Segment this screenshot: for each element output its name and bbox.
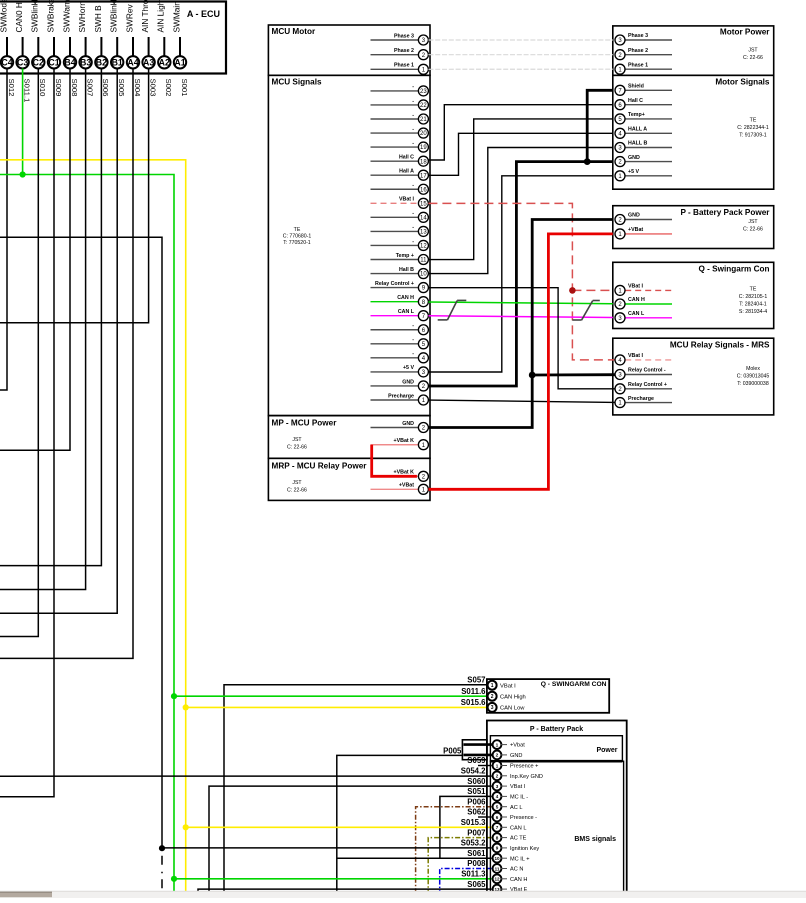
svg-text:18: 18 — [420, 159, 427, 165]
svg-text:CAN High: CAN High — [500, 694, 526, 700]
connector Motor Power box — [613, 26, 774, 75]
P Battery Pack Power pins — [625, 219, 672, 221]
Q Swingarm Con pins — [625, 289, 672, 291]
svg-text:Phase 3: Phase 3 — [628, 33, 648, 39]
svg-text:S011.1: S011.1 — [22, 79, 31, 103]
wire S007 from pin B3, exits left — [0, 69, 86, 590]
svg-text:CAN L: CAN L — [628, 311, 645, 317]
wire S063 ignition key trunk entering left — [0, 237, 162, 848]
svg-text:SWBlinkR: SWBlinkR — [109, 0, 119, 33]
svg-text:Q - SWINGARM CON: Q - SWINGARM CON — [541, 681, 607, 688]
svg-text:B4: B4 — [64, 57, 75, 67]
wire S011.1 CAN0-H green from pin C3 — [22, 69, 24, 175]
svg-text:-: - — [412, 84, 414, 90]
wire S061 : BMS pin 10 MC IL + — [337, 857, 492, 859]
svg-text:SWBrake: SWBrake — [45, 0, 55, 33]
svg-text:A1: A1 — [174, 57, 185, 67]
wire S008 from pin B4, exits left — [0, 69, 70, 451]
svg-text:-: - — [412, 140, 414, 146]
svg-text:S062: S062 — [467, 808, 486, 817]
svg-text:Motor Power: Motor Power — [720, 28, 770, 37]
svg-text:A2: A2 — [159, 57, 170, 67]
svg-text:MCU Relay Signals - MRS: MCU Relay Signals - MRS — [670, 341, 770, 350]
svg-text:AC TE: AC TE — [510, 836, 527, 842]
svg-text:AIN Light: AIN Light — [156, 0, 166, 33]
svg-text:+5 V: +5 V — [403, 365, 415, 371]
svg-text:GND: GND — [628, 213, 640, 219]
svg-text:B3: B3 — [80, 57, 91, 67]
cable bundle box P005 — [462, 740, 487, 760]
svg-text:Hall B: Hall B — [399, 267, 414, 273]
BMS signals sub-box — [490, 761, 623, 899]
wire S003 from pin A3, exits left — [0, 69, 149, 323]
svg-text:Phase 1: Phase 1 — [394, 63, 414, 69]
svg-text:3: 3 — [491, 705, 494, 711]
wire S063.2 : BMS pin 9 Ignition Key — [162, 847, 492, 849]
wire CAN H green : MCU 8 to Q 2 — [428, 302, 612, 304]
svg-text:SWHorn: SWHorn — [77, 1, 87, 33]
connector MCU Relay Signals - MRS box — [613, 338, 774, 415]
svg-text:S015.6: S015.6 — [461, 698, 486, 707]
svg-text:C4: C4 — [1, 57, 12, 67]
svg-text:Temp +: Temp + — [396, 253, 414, 259]
wire Hall A : MCU 17 to Motor Signals 4 — [428, 133, 612, 175]
svg-text:S054.2: S054.2 — [461, 767, 486, 776]
MP MCU Power pins — [371, 427, 419, 429]
svg-text:S011.6: S011.6 — [461, 687, 486, 696]
svg-text:Ignition Key: Ignition Key — [510, 846, 539, 852]
svg-text:B1: B1 — [112, 57, 123, 67]
svg-text:CAN Low: CAN Low — [500, 706, 525, 712]
wire Phase 3 — [428, 39, 612, 41]
svg-text:S003: S003 — [148, 79, 157, 97]
svg-text:2: 2 — [491, 694, 494, 700]
svg-text:-: - — [412, 225, 414, 231]
connector A-ECU box — [0, 2, 226, 74]
svg-text:Shield: Shield — [628, 84, 644, 90]
svg-text:2: 2 — [496, 753, 499, 759]
junction yellow CAN L — [183, 824, 189, 830]
svg-text:CAN H: CAN H — [628, 297, 645, 303]
svg-text:10: 10 — [420, 272, 427, 278]
svg-text:MCU Signals: MCU Signals — [272, 77, 322, 86]
wire Phase 1 — [428, 68, 612, 70]
svg-text:HALL B: HALL B — [628, 141, 647, 147]
connector MCU Signals box — [268, 75, 430, 415]
svg-text:9: 9 — [496, 846, 499, 851]
wire S051 : BMS pin 4 — [440, 796, 492, 858]
svg-text:C: 282105-1: C: 282105-1 — [739, 294, 768, 300]
MCU Signals pins 23..1 — [371, 90, 419, 92]
svg-text:HALL A: HALL A — [628, 127, 647, 133]
wire S011.6 green branch to Q-SWINGARM pin 2 — [174, 695, 488, 697]
Power pins — [493, 740, 502, 749]
svg-text:SWWarn: SWWarn — [61, 0, 71, 33]
svg-text:S057: S057 — [467, 675, 485, 684]
junction VBat I — [569, 287, 576, 294]
svg-text:23: 23 — [420, 89, 427, 95]
svg-text:C: 22-66: C: 22-66 — [287, 444, 307, 450]
svg-text:GND: GND — [402, 379, 414, 385]
svg-text:S065: S065 — [467, 880, 486, 889]
svg-text:AIN Throttle: AIN Throttle — [140, 0, 150, 33]
svg-text:SWMode: SWMode — [0, 0, 8, 33]
svg-text:Phase 2: Phase 2 — [394, 48, 414, 54]
svg-text:S009: S009 — [54, 79, 63, 97]
wire S010 from pin C2, exits left — [0, 69, 38, 637]
svg-text:Phase 2: Phase 2 — [628, 48, 648, 54]
svg-text:TE: TE — [294, 227, 301, 233]
junction S011 at C3 drop — [20, 171, 26, 177]
svg-text:-: - — [412, 126, 414, 132]
MCU Motor pins 3,2,1 Phase — [371, 39, 419, 41]
svg-text:Molex: Molex — [746, 366, 760, 372]
svg-text:CAN H: CAN H — [397, 295, 414, 301]
wire S062 stub : BMS pin 6 — [478, 816, 492, 818]
svg-text:3: 3 — [496, 784, 499, 789]
junction S063 ignition key — [159, 845, 165, 851]
Q-SWINGARM pins — [488, 681, 497, 690]
svg-text:C1: C1 — [48, 57, 59, 67]
svg-text:12: 12 — [494, 877, 500, 882]
svg-text:Presence -: Presence - — [510, 815, 537, 821]
wire S009 from pin C1, exits left — [0, 69, 54, 797]
svg-text:Relay Control +: Relay Control + — [628, 382, 667, 388]
svg-text:P - Battery Pack: P - Battery Pack — [530, 726, 583, 733]
svg-text:CAN L: CAN L — [510, 825, 526, 831]
svg-text:S051: S051 — [467, 787, 486, 796]
connector P - Battery Pack outer box — [487, 721, 627, 900]
wire Hall C : MCU 18 to Motor Signals 6 — [428, 105, 612, 160]
svg-text:10: 10 — [494, 856, 500, 861]
svg-text:T: 282404-1: T: 282404-1 — [739, 301, 767, 307]
svg-text:Q - Swingarm Con: Q - Swingarm Con — [699, 264, 770, 273]
wire S063 dashed continuation below junction — [161, 848, 163, 891]
svg-text:TE: TE — [750, 118, 757, 124]
svg-text:GND: GND — [510, 753, 522, 759]
wire S005 from pin B1, exits left — [0, 69, 117, 614]
wire P005 cable to bundle — [337, 755, 463, 893]
svg-text:S004: S004 — [133, 79, 142, 98]
Motor Signals pins — [625, 89, 672, 91]
svg-text:-: - — [412, 112, 414, 118]
wire P006 brown : BMS pin 5 AC L — [416, 807, 492, 894]
svg-text:Precharge: Precharge — [388, 393, 414, 399]
svg-text:13: 13 — [420, 230, 427, 236]
wire S015.3 yellow branch : BMS pin 7 CAN L — [186, 826, 492, 828]
svg-text:JST: JST — [292, 480, 302, 486]
wire P007 olive : BMS pin 8 AC TE — [428, 838, 491, 894]
scrollbar thumb — [0, 892, 52, 897]
svg-text:19: 19 — [420, 145, 427, 151]
svg-text:20: 20 — [420, 131, 427, 137]
wire Hall B : MCU 10 to Motor Signals 3 — [428, 148, 612, 274]
svg-text:JST: JST — [748, 219, 758, 225]
svg-text:S011.3: S011.3 — [461, 870, 486, 879]
svg-text:SWRev: SWRev — [124, 4, 134, 33]
svg-text:S006: S006 — [101, 79, 110, 97]
MCU Relay Signals pins — [625, 359, 672, 361]
svg-text:S059: S059 — [467, 756, 486, 765]
connector MCU Motor box — [268, 25, 430, 75]
svg-text:Phase 3: Phase 3 — [394, 33, 414, 39]
svg-text:MC IL +: MC IL + — [510, 856, 530, 862]
svg-text:P - Battery Pack Power: P - Battery Pack Power — [680, 208, 770, 217]
wire S011.3 green branch : BMS pin 12 CAN H — [174, 878, 492, 880]
svg-text:BMS signals: BMS signals — [574, 836, 616, 843]
svg-text:11: 11 — [420, 258, 427, 264]
wire S006 from pin B2, exits left — [0, 69, 101, 566]
svg-text:+VBat: +VBat — [399, 483, 414, 489]
wire S012 from pin C4, exits left — [0, 69, 7, 391]
svg-text:Hall A: Hall A — [399, 169, 414, 175]
connector Q - SWINGARM CON box — [487, 679, 609, 713]
svg-text:VBat I: VBat I — [628, 353, 644, 359]
wire GND branch to Shield pin 7 — [587, 90, 613, 161]
svg-text:S005: S005 — [117, 79, 126, 97]
A-ECU pin circles — [1, 56, 13, 68]
connector P - Battery Pack Power box — [613, 206, 774, 249]
BMS pins 1..13 — [493, 761, 502, 770]
svg-text:6: 6 — [496, 815, 499, 820]
svg-text:+5 V: +5 V — [628, 169, 640, 175]
junction yellow Q — [183, 704, 189, 710]
svg-text:C: 039013045: C: 039013045 — [737, 373, 770, 379]
svg-text:VBat I: VBat I — [628, 284, 644, 290]
svg-text:VBat I: VBat I — [510, 784, 526, 790]
wire +VBat thick red : MRP 1 to P-Battery 1 — [428, 234, 612, 489]
wire GND branch to MRS 3 Relay Control - — [532, 373, 614, 376]
wire GND thick into Power pin 2 — [464, 754, 493, 757]
svg-text:AC N: AC N — [510, 867, 523, 873]
junction green CAN H — [171, 876, 177, 882]
connector MRP - MCU Relay Power box — [268, 458, 430, 500]
svg-text:11: 11 — [495, 866, 500, 871]
svg-text:-: - — [412, 323, 414, 329]
svg-text:VBat I: VBat I — [500, 683, 516, 689]
svg-text:S060: S060 — [467, 777, 486, 786]
wire S059 stub to BMS pin 1 — [478, 765, 492, 767]
svg-text:-: - — [412, 239, 414, 245]
svg-text:GND: GND — [402, 421, 414, 427]
svg-text:12: 12 — [420, 244, 427, 250]
wire Precharge : MCU 1 to MRS 1 — [428, 400, 614, 402]
svg-text:5: 5 — [496, 805, 499, 810]
svg-text:C: 770680-1: C: 770680-1 — [283, 233, 312, 239]
scrollbar track — [0, 891, 806, 898]
svg-text:TE: TE — [750, 286, 757, 292]
svg-text:+Vbat: +Vbat — [510, 743, 525, 749]
Motor Power pins — [625, 39, 672, 41]
svg-text:Hall C: Hall C — [628, 98, 643, 104]
svg-text:-: - — [412, 351, 414, 357]
connector MP - MCU Power box — [268, 416, 430, 459]
svg-text:MP - MCU Power: MP - MCU Power — [272, 418, 338, 427]
connector Motor Signals box — [613, 75, 774, 189]
svg-text:S008: S008 — [70, 79, 79, 97]
twisted pair symbol left — [447, 301, 457, 320]
wire Temp+ : MCU 11 to Motor Signals 5 — [428, 119, 612, 260]
wire S004 from pin A4, exits left — [0, 69, 133, 659]
wire P008 blue : BMS pin 11 AC N — [440, 869, 492, 894]
junction green Q — [171, 693, 177, 699]
wire GND thick trunk2 : MP 2 up to P-Battery 2 — [428, 220, 612, 428]
svg-text:17: 17 — [420, 173, 427, 179]
wire Phase 2 — [428, 54, 612, 56]
svg-text:A3: A3 — [143, 57, 154, 67]
svg-text:8: 8 — [496, 835, 499, 840]
wire GND thick : MCU 2 to Motor Signals 2 — [428, 162, 612, 386]
svg-text:S007: S007 — [85, 79, 94, 97]
svg-text:C: 22-66: C: 22-66 — [743, 55, 763, 61]
wire S015.6 yellow branch to Q-SWINGARM pin 3 — [186, 706, 488, 708]
svg-text:Hall C: Hall C — [399, 154, 414, 160]
svg-text:B2: B2 — [96, 57, 107, 67]
svg-text:C: 22-66: C: 22-66 — [743, 226, 763, 232]
svg-text:S015.3: S015.3 — [461, 818, 486, 827]
svg-text:JST: JST — [292, 437, 302, 443]
svg-text:AC L: AC L — [510, 805, 522, 811]
wire S057 : to Q-SWINGARM pin 1 — [224, 685, 488, 894]
svg-text:-: - — [412, 211, 414, 217]
svg-text:1: 1 — [496, 742, 499, 748]
wire +5V : MCU 3 to Motor Signals 1 — [428, 176, 612, 372]
svg-text:16: 16 — [420, 187, 427, 193]
wire net S011 green horizontal trunk — [0, 175, 174, 894]
connector Q - Swingarm Con box — [613, 262, 774, 328]
svg-text:GND: GND — [628, 155, 640, 161]
svg-text:C3: C3 — [17, 57, 28, 67]
svg-text:15: 15 — [420, 201, 427, 207]
svg-text:Presence +: Presence + — [510, 764, 538, 770]
svg-text:2: 2 — [496, 774, 499, 779]
svg-text:A - ECU: A - ECU — [187, 9, 220, 19]
svg-text:7: 7 — [496, 825, 499, 830]
MRP MCU Relay Power pins — [371, 475, 419, 477]
svg-text:-: - — [412, 183, 414, 189]
svg-text:VBat I: VBat I — [399, 197, 415, 203]
wire VBat I branch to Q pin 1 — [572, 289, 614, 291]
svg-text:MC IL -: MC IL - — [510, 795, 528, 801]
wire Relay Control + : MCU 9 to MRS 2 — [428, 288, 614, 389]
svg-text:P008: P008 — [467, 859, 486, 868]
svg-text:S001: S001 — [180, 79, 189, 97]
Power sub-box — [490, 736, 622, 762]
wire S054.2 long horizontal to battery pin 2 — [0, 775, 492, 777]
svg-text:S010: S010 — [38, 79, 47, 97]
svg-text:Precharge: Precharge — [628, 396, 654, 402]
junction GND shield — [584, 158, 591, 165]
svg-text:-: - — [412, 337, 414, 343]
A-ECU pin stubs — [6, 37, 8, 56]
svg-text:CAN L: CAN L — [398, 309, 415, 315]
svg-text:Inp.Key GND: Inp.Key GND — [510, 774, 543, 780]
svg-text:A4: A4 — [127, 57, 138, 67]
svg-text:S053.2: S053.2 — [461, 839, 486, 848]
svg-text:1: 1 — [496, 763, 499, 768]
svg-text:MCU Motor: MCU Motor — [272, 27, 316, 36]
svg-text:C: 2822344-1: C: 2822344-1 — [737, 125, 769, 131]
svg-text:22: 22 — [420, 103, 427, 109]
svg-text:14: 14 — [420, 215, 427, 221]
svg-text:CAN0 H: CAN0 H — [14, 2, 24, 32]
wire S065 : BMS pin 13 — [198, 889, 492, 893]
svg-text:CAN H: CAN H — [510, 877, 527, 883]
svg-text:Motor Signals: Motor Signals — [715, 78, 770, 87]
wire S060 : BMS pin 3 from below — [209, 786, 492, 893]
svg-text:-: - — [412, 98, 414, 104]
svg-text:+VBat K: +VBat K — [394, 470, 415, 476]
svg-text:Phase 1: Phase 1 — [628, 62, 648, 68]
wire CAN L magenta : MCU 7 to Q 3 — [428, 316, 612, 318]
wire +VBat K link MP1 to MRP2 — [372, 444, 417, 446]
svg-text:SWMain: SWMain — [171, 1, 181, 33]
svg-text:P007: P007 — [467, 828, 485, 837]
svg-text:21: 21 — [420, 117, 427, 123]
svg-text:S061: S061 — [467, 849, 486, 858]
svg-text:C: 22-66: C: 22-66 — [287, 487, 307, 493]
svg-text:S: 281934-4: S: 281934-4 — [739, 309, 767, 315]
svg-text:P006: P006 — [467, 797, 486, 806]
svg-text:SWH B: SWH B — [93, 5, 103, 33]
svg-text:MRP - MCU Relay Power: MRP - MCU Relay Power — [272, 462, 368, 471]
svg-text:+VBat K: +VBat K — [394, 438, 415, 444]
svg-text:SWBlinkL: SWBlinkL — [30, 0, 40, 33]
svg-text:4: 4 — [496, 794, 499, 799]
svg-text:1: 1 — [491, 683, 494, 689]
svg-text:T: 917309-1: T: 917309-1 — [739, 133, 767, 139]
svg-text:S002: S002 — [164, 79, 173, 97]
svg-text:T: 770520-1: T: 770520-1 — [283, 240, 311, 246]
svg-text:Relay Control +: Relay Control + — [375, 281, 414, 287]
svg-text:Power: Power — [596, 747, 617, 754]
svg-text:Temp+: Temp+ — [628, 112, 645, 118]
svg-text:S012: S012 — [7, 79, 16, 97]
svg-text:C2: C2 — [33, 57, 44, 67]
wire +Vbat thick into Power pin 1 — [464, 743, 493, 746]
svg-text:+VBat: +VBat — [628, 227, 643, 233]
svg-text:P005: P005 — [443, 746, 462, 755]
junction GND MRS — [529, 372, 536, 379]
wire VBat I dashed red : MCU 15 to Q1 and MRS4 — [428, 203, 614, 360]
svg-text:T: 039000038: T: 039000038 — [737, 381, 769, 387]
svg-text:JST: JST — [748, 48, 758, 54]
svg-text:Relay Control -: Relay Control - — [628, 368, 666, 374]
twisted pair symbol right — [582, 301, 593, 321]
wire net S015 yellow trunk from left — [0, 160, 186, 894]
